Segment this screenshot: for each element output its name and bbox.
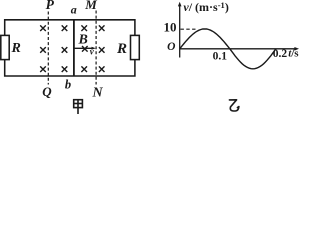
svg-text:v/ (m·s-1): v/ (m·s-1): [183, 0, 228, 14]
svg-text:M: M: [84, 0, 97, 12]
wire top loop of circuit: [5, 20, 135, 36]
svg-text:Q: Q: [42, 84, 52, 99]
dashed line M-N: [95, 11, 97, 85]
figure label 乙 (drawn glyph): [229, 100, 239, 111]
velocity sine curve: [180, 29, 276, 69]
t axis (graph): [180, 47, 299, 51]
svg-text:B: B: [78, 33, 88, 48]
resistor R2 (right): [131, 35, 140, 59]
svg-text:t/s: t/s: [288, 48, 299, 60]
svg-text:R: R: [116, 41, 127, 57]
svg-text:b: b: [65, 78, 71, 92]
figure label 甲 (drawn glyph): [74, 100, 83, 114]
svg-text:0.1: 0.1: [213, 50, 228, 62]
svg-text:0.2: 0.2: [273, 48, 288, 60]
dashed peak level line: [181, 28, 197, 30]
wire bottom loop of circuit: [5, 60, 135, 76]
svg-text:a: a: [71, 3, 77, 17]
magnetic field crosses (B into page): [40, 25, 104, 72]
dashed line P-Q: [47, 12, 49, 85]
conducting rod ab: [73, 20, 75, 76]
svg-text:R: R: [11, 41, 21, 56]
v axis (graph): [178, 2, 182, 58]
svg-text:P: P: [46, 0, 55, 12]
resistor R1 (left): [1, 35, 9, 59]
svg-text:O: O: [167, 41, 175, 53]
svg-text:10: 10: [164, 20, 177, 35]
velocity arrow v of rod: [74, 47, 96, 50]
svg-text:N: N: [92, 86, 104, 101]
